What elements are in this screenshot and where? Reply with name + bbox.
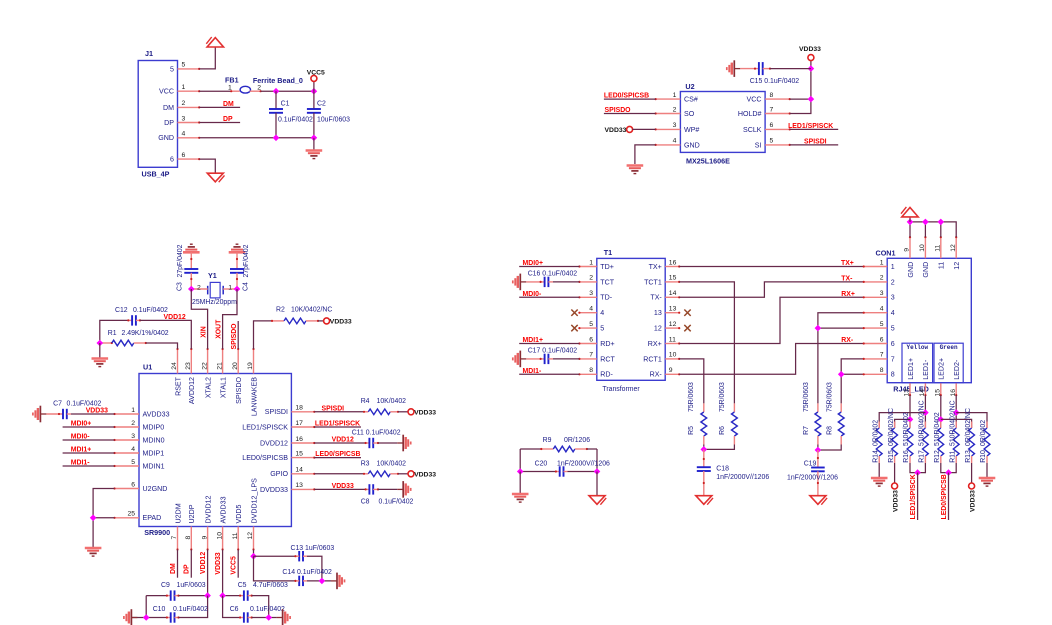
svg-text:7: 7 — [891, 355, 895, 363]
svg-text:8: 8 — [770, 92, 774, 99]
svg-text:8: 8 — [891, 371, 895, 379]
capacitor C11 0.1uF/0402 — [366, 442, 370, 444]
svg-text:1: 1 — [131, 407, 135, 414]
svg-text:12: 12 — [953, 262, 961, 270]
svg-text:C17 0.1uF/0402: C17 0.1uF/0402 — [528, 348, 578, 355]
ground (left of C7) — [33, 406, 47, 423]
svg-text:C12: C12 — [115, 307, 128, 314]
svg-text:18: 18 — [295, 405, 303, 412]
wire LED2- net (pin16) — [955, 395, 957, 428]
svg-text:0.1uF/0402: 0.1uF/0402 — [67, 401, 102, 408]
svg-text:VCC: VCC — [159, 88, 174, 96]
svg-text:DVDD33: DVDD33 — [260, 486, 288, 494]
svg-text:5: 5 — [589, 321, 593, 328]
svg-text:WP#: WP# — [684, 126, 699, 134]
svg-text:4: 4 — [673, 138, 677, 145]
svg-text:R3: R3 — [361, 460, 370, 467]
svg-text:R6: R6 — [719, 426, 726, 435]
svg-text:6: 6 — [891, 340, 895, 348]
svg-text:2.49K/1%/0402: 2.49K/1%/0402 — [122, 330, 169, 337]
svg-text:16: 16 — [669, 259, 677, 266]
svg-text:SPISDI: SPISDI — [322, 405, 345, 412]
svg-text:GND: GND — [907, 262, 915, 278]
svg-text:DM: DM — [223, 101, 234, 108]
ground (left of C17) — [513, 351, 527, 368]
svg-text:10K/0402/NC: 10K/0402/NC — [291, 306, 332, 313]
svg-text:VCC: VCC — [747, 96, 762, 104]
svg-text:VDD33: VDD33 — [605, 127, 627, 134]
resistor R5 75R/0603 — [703, 403, 705, 412]
svg-text:LED1/SPISCK: LED1/SPISCK — [910, 474, 917, 519]
svg-text:DVDD12_LPS: DVDD12_LPS — [250, 478, 258, 524]
capacitor C13 1uF/0603 — [254, 555, 296, 557]
svg-text:25: 25 — [127, 511, 135, 518]
wire DP net (J1 pin3) — [199, 122, 240, 124]
IC U1 SR9900 — [139, 374, 291, 527]
svg-text:C10: C10 — [153, 606, 166, 613]
svg-text:GND: GND — [922, 262, 930, 278]
svg-text:C3: C3 — [177, 282, 184, 291]
svg-text:7: 7 — [880, 352, 884, 359]
resistor R10 0R/0402 — [986, 422, 988, 429]
svg-text:510R/0402/NC: 510R/0402/NC — [919, 400, 926, 446]
svg-text:21: 21 — [216, 362, 223, 370]
svg-text:0R/0402/NC: 0R/0402/NC — [965, 408, 972, 446]
svg-text:Yellow: Yellow — [906, 344, 928, 351]
wire DVDD33 pin13 net — [314, 488, 365, 490]
svg-text:LED1+: LED1+ — [907, 358, 915, 380]
svg-text:6: 6 — [770, 122, 774, 129]
svg-text:AVDD33: AVDD33 — [143, 410, 170, 418]
wire VDD12 to AVDD12 pin23 — [140, 320, 191, 349]
svg-text:TX+: TX+ — [841, 260, 854, 267]
chassis ground (above CON1) — [901, 207, 918, 217]
capacitor C17 0.1uF/0402 — [526, 358, 544, 360]
svg-text:6: 6 — [131, 481, 135, 488]
svg-text:R13: R13 — [965, 450, 972, 463]
svg-text:SR9900: SR9900 — [144, 528, 170, 537]
svg-text:LED0/SPICSB: LED0/SPICSB — [315, 451, 360, 458]
svg-text:MDI0+: MDI0+ — [523, 260, 544, 267]
chassis ground (below J1) — [207, 173, 224, 182]
wire LED1+ net (pin13) — [909, 395, 911, 428]
svg-text:RX-: RX- — [650, 371, 663, 379]
svg-text:20: 20 — [232, 362, 239, 370]
svg-text:C20: C20 — [535, 461, 548, 468]
wire J1 GND net — [199, 137, 314, 139]
wire MDI1- to T1 RD- — [519, 373, 579, 375]
wire LED2+ net (pin15) — [940, 395, 942, 428]
svg-text:23: 23 — [185, 362, 192, 370]
wire MDI1+ to T1 RD+ — [519, 343, 579, 345]
resistor R9 0R/1206 — [520, 448, 541, 450]
no-connect X T1 pin4 — [571, 310, 577, 316]
svg-text:MDIP0: MDIP0 — [143, 423, 165, 431]
svg-text:2: 2 — [589, 275, 593, 282]
svg-text:LED2+: LED2+ — [938, 358, 946, 380]
wire U2 SI net — [790, 144, 839, 146]
svg-text:R17: R17 — [919, 450, 926, 463]
svg-text:XTAL1: XTAL1 — [219, 377, 227, 398]
svg-text:RX-: RX- — [841, 337, 854, 344]
svg-text:C7: C7 — [53, 401, 62, 408]
svg-text:2: 2 — [891, 278, 895, 286]
svg-text:4: 4 — [182, 131, 186, 138]
svg-text:R1: R1 — [108, 330, 117, 337]
wire LED1- net (pin14) — [924, 395, 926, 428]
svg-text:AVDD33: AVDD33 — [219, 496, 227, 523]
svg-text:VDD33: VDD33 — [86, 408, 108, 415]
chassis ground (below C18) — [696, 496, 713, 505]
svg-text:11: 11 — [669, 336, 676, 343]
svg-text:5: 5 — [600, 325, 604, 333]
svg-text:C8: C8 — [361, 498, 370, 505]
svg-text:27pF/0402: 27pF/0402 — [243, 244, 250, 277]
svg-text:XTAL2: XTAL2 — [204, 377, 212, 398]
svg-text:TX+: TX+ — [649, 263, 662, 271]
svg-text:R11: R11 — [949, 451, 956, 463]
wire U2 SO net — [604, 113, 656, 115]
no-connect X T1 pin12 — [684, 325, 690, 331]
svg-text:10: 10 — [669, 352, 677, 359]
ground (left of C10) — [124, 609, 137, 625]
ground (below U2) — [627, 166, 644, 174]
svg-text:24: 24 — [171, 362, 178, 370]
svg-text:RX+: RX+ — [648, 340, 662, 348]
svg-text:C11 0.1uF/0402: C11 0.1uF/0402 — [352, 429, 401, 436]
svg-text:2: 2 — [197, 284, 201, 291]
svg-text:510R/0402: 510R/0402 — [934, 412, 941, 446]
svg-text:U2GND: U2GND — [143, 485, 168, 493]
svg-text:15: 15 — [295, 450, 303, 457]
svg-text:1: 1 — [589, 259, 593, 266]
chassis ground (below C20 right) — [596, 472, 598, 496]
svg-text:5: 5 — [170, 65, 174, 73]
wire U2 GND to ground — [635, 145, 656, 164]
svg-text:5: 5 — [891, 325, 895, 333]
power port VDD33 (above U2) — [808, 55, 814, 61]
resistor R4 10K/0402 — [364, 411, 368, 413]
capacitor C12 0.1uF/0402 — [100, 320, 129, 343]
svg-text:SPISDI: SPISDI — [265, 408, 288, 416]
svg-text:FB1: FB1 — [225, 75, 239, 84]
capacitor C20 1nF/2000V//1206 — [519, 449, 521, 472]
svg-text:TCT: TCT — [600, 278, 614, 286]
svg-text:U1: U1 — [143, 363, 152, 372]
wire R10 to ground — [986, 463, 988, 477]
capacitor C4 27pF/0402 — [236, 252, 238, 269]
svg-text:C18: C18 — [716, 465, 729, 472]
svg-text:12: 12 — [654, 325, 662, 333]
svg-text:0.1uF/0402: 0.1uF/0402 — [250, 606, 285, 613]
wire MDI0+ net — [63, 426, 115, 428]
wire AVDD33 pin1 net — [71, 413, 115, 415]
ground (right of C14) — [331, 573, 345, 590]
svg-text:13: 13 — [669, 306, 677, 313]
svg-text:SPISDO: SPISDO — [231, 323, 238, 350]
svg-text:MDI0+: MDI0+ — [71, 421, 92, 428]
svg-text:Y1: Y1 — [208, 271, 217, 280]
wire RX- net — [679, 344, 864, 375]
svg-text:MDIN0: MDIN0 — [143, 436, 165, 444]
svg-text:C2: C2 — [317, 100, 326, 107]
svg-text:R8: R8 — [827, 426, 834, 435]
svg-text:VDD12: VDD12 — [200, 552, 207, 574]
wire R12/R11 bottoms to LED0/SPICSB — [941, 463, 956, 473]
svg-text:1: 1 — [228, 284, 232, 291]
svg-text:HOLD#: HOLD# — [738, 110, 762, 118]
connector CON1 RJ45_LED — [887, 258, 971, 382]
wire U2 VCC rail to VDD33 — [790, 98, 811, 100]
ground (right of C8) — [397, 481, 411, 498]
resistor R8 75R/0603 — [840, 403, 842, 412]
svg-text:2: 2 — [131, 420, 135, 427]
svg-text:C4: C4 — [243, 282, 250, 291]
svg-text:CON1: CON1 — [876, 248, 896, 257]
svg-text:5: 5 — [880, 321, 884, 328]
svg-text:14: 14 — [295, 467, 303, 474]
svg-text:0R/0402: 0R/0402 — [980, 420, 987, 446]
svg-text:XIN: XIN — [200, 326, 207, 338]
svg-text:8: 8 — [880, 367, 884, 374]
svg-text:DP: DP — [223, 116, 233, 123]
svg-text:SI: SI — [755, 141, 762, 149]
wire CON1 pin7/pin8 junction (down to R8) — [841, 359, 864, 404]
resistor R15 0R/0402/NC — [894, 422, 896, 429]
svg-text:7: 7 — [171, 536, 178, 540]
svg-text:C9: C9 — [161, 582, 170, 589]
power port VDD33 (R3) — [408, 471, 414, 477]
capacitor C10 0.1uF/0402 — [145, 596, 147, 618]
flash U2 MX25L1606E — [680, 92, 765, 153]
svg-text:75R/0603: 75R/0603 — [688, 382, 695, 412]
capacitor C8 0.1uF/0402 — [366, 488, 370, 490]
svg-text:3: 3 — [891, 294, 895, 302]
svg-text:22: 22 — [201, 362, 208, 370]
capacitor C19 1nF/2000V/1206 — [817, 450, 819, 468]
svg-text:VCC5: VCC5 — [307, 70, 325, 77]
wire U2 CS# net — [604, 98, 656, 100]
svg-text:R16: R16 — [903, 450, 910, 463]
wire DVDD12 pin16 net — [314, 442, 365, 444]
power port VCC5 — [313, 81, 315, 91]
wire VCC5 net (pin11) — [237, 550, 239, 578]
LED sub-box Green — [934, 343, 963, 383]
svg-text:8: 8 — [589, 367, 593, 374]
LED sub-box Yellow — [902, 343, 933, 383]
svg-text:3: 3 — [673, 122, 677, 129]
svg-text:DVDD12: DVDD12 — [204, 495, 212, 523]
capacitor C9 1uF/0603 — [146, 595, 167, 597]
svg-text:RSET: RSET — [174, 376, 182, 396]
svg-text:2: 2 — [257, 84, 261, 91]
svg-text:VDD33: VDD33 — [414, 471, 436, 478]
svg-text:RD-: RD- — [600, 371, 613, 379]
wire SPISDI pin18 to R4 — [314, 411, 364, 413]
svg-text:VDD33: VDD33 — [414, 409, 436, 416]
svg-text:R7: R7 — [803, 426, 810, 435]
svg-text:1: 1 — [673, 92, 677, 99]
svg-text:1: 1 — [228, 84, 232, 91]
svg-text:3: 3 — [182, 115, 186, 122]
wire MDI0- to T1 TD- — [519, 296, 579, 298]
svg-text:VDD33: VDD33 — [332, 483, 354, 490]
svg-text:11: 11 — [232, 532, 239, 539]
svg-text:MDI1-: MDI1- — [523, 368, 542, 375]
wire DM net (J1 pin2) — [199, 106, 240, 108]
svg-text:9: 9 — [201, 536, 208, 540]
svg-text:C6: C6 — [230, 606, 239, 613]
svg-text:TD+: TD+ — [600, 263, 614, 271]
svg-text:14: 14 — [669, 290, 677, 297]
svg-text:9: 9 — [904, 248, 911, 252]
svg-text:U2: U2 — [685, 82, 694, 91]
connector J1 USB_4P — [138, 61, 177, 168]
wire VDD33 net (pin10) — [222, 550, 224, 596]
svg-text:RD+: RD+ — [600, 340, 614, 348]
svg-text:0R/1206: 0R/1206 — [564, 437, 590, 444]
svg-text:10K/0402: 10K/0402 — [377, 460, 407, 467]
svg-text:TX-: TX- — [841, 275, 853, 282]
capacitor C15 0.1uF/0402 — [740, 68, 759, 70]
svg-text:0R/0402/NC: 0R/0402/NC — [888, 408, 895, 446]
wire LED0/SPICSB pin15 net — [314, 457, 361, 459]
svg-text:13: 13 — [654, 309, 662, 317]
svg-text:R5: R5 — [688, 426, 695, 435]
svg-text:LED1/SPISCK: LED1/SPISCK — [242, 423, 288, 431]
svg-text:GPIO: GPIO — [270, 470, 288, 478]
svg-text:C14 0.1uF/0402: C14 0.1uF/0402 — [282, 569, 332, 576]
svg-text:0.1uF/0402: 0.1uF/0402 — [379, 498, 414, 505]
svg-text:USB_4P: USB_4P — [142, 170, 170, 179]
svg-text:MDI1-: MDI1- — [71, 460, 90, 467]
wire RCT1 net (down to R5) — [679, 359, 704, 404]
svg-text:RCT: RCT — [600, 355, 615, 363]
wire U2 SCLK net — [790, 128, 839, 130]
svg-text:LANWAKEB: LANWAKEB — [250, 377, 258, 416]
capacitor C3 27pF/0402 — [190, 252, 192, 269]
wire LED1+ branch to R15 — [895, 419, 910, 428]
svg-text:15: 15 — [669, 275, 677, 282]
resistor R17 510R/0402/NC — [924, 422, 926, 429]
svg-text:MX25L1606E: MX25L1606E — [686, 157, 730, 166]
svg-text:MDIN1: MDIN1 — [143, 462, 165, 470]
svg-text:U2DM: U2DM — [174, 503, 182, 523]
svg-text:TD-: TD- — [600, 294, 612, 302]
resistor R1 2.49K/1%/0402 — [100, 342, 112, 344]
wire LED2- branch to R10 — [956, 413, 987, 428]
ground (below R1) — [99, 343, 101, 358]
svg-text:LED0/SPICSB: LED0/SPICSB — [604, 93, 649, 100]
svg-text:GND: GND — [158, 134, 174, 142]
svg-text:1: 1 — [891, 263, 895, 271]
svg-text:7: 7 — [770, 106, 774, 113]
svg-text:Green: Green — [940, 344, 958, 351]
capacitor C18 1nF/2000V//1206 — [703, 449, 705, 467]
svg-text:1nF/2000V/1206: 1nF/2000V/1206 — [787, 475, 838, 482]
svg-text:C13 1uF/0603: C13 1uF/0603 — [291, 545, 335, 552]
svg-text:1: 1 — [182, 84, 186, 91]
svg-text:6: 6 — [182, 152, 186, 159]
svg-text:MDI1+: MDI1+ — [523, 337, 544, 344]
svg-text:0.1uF/0402: 0.1uF/0402 — [173, 606, 208, 613]
svg-text:SPISDI: SPISDI — [804, 138, 827, 145]
resistor R3 10K/0402 — [364, 473, 368, 475]
power port VDD33 (below R15) — [894, 463, 896, 483]
svg-text:12: 12 — [669, 321, 677, 328]
svg-text:27pF/0402: 27pF/0402 — [177, 244, 184, 277]
svg-text:LED0/SPICSB: LED0/SPICSB — [941, 474, 948, 519]
svg-text:SPISDO: SPISDO — [605, 107, 632, 114]
svg-text:3: 3 — [589, 290, 593, 297]
capacitor C2 10uF/0603 — [313, 91, 315, 109]
svg-text:VDD33: VDD33 — [969, 490, 976, 512]
power port VDD33 (R2) — [324, 318, 330, 324]
wire RX+ net — [679, 297, 864, 343]
svg-text:510R/0402: 510R/0402 — [903, 412, 910, 446]
svg-text:4: 4 — [891, 309, 895, 317]
svg-text:CS#: CS# — [684, 96, 698, 104]
svg-text:R12: R12 — [934, 450, 941, 463]
svg-text:11: 11 — [938, 262, 946, 269]
chassis ground (below C19) — [810, 496, 827, 505]
wire DM net (pin7) — [177, 550, 179, 578]
wire J1 pin6 to chassis — [199, 159, 215, 173]
svg-text:TX-: TX- — [650, 294, 662, 302]
capacitor C1 0.1uF/0402 — [275, 91, 277, 109]
svg-text:10: 10 — [216, 532, 223, 540]
resistor R6 75R/0603 — [733, 403, 735, 412]
svg-text:0R/0402: 0R/0402 — [872, 420, 879, 446]
power port VDD33 (below R13) — [971, 463, 973, 483]
chassis ground (top left) — [206, 37, 223, 47]
svg-text:12: 12 — [950, 244, 957, 252]
wire R7/R8 bottoms join — [817, 445, 819, 451]
wire J1 pin5 to chassis — [199, 47, 215, 69]
wire XOUT net (crystal to XTAL1) — [223, 289, 237, 349]
ground (below C20 left) — [519, 472, 521, 494]
svg-text:R15: R15 — [888, 450, 895, 463]
svg-text:75R/0603: 75R/0603 — [719, 382, 726, 412]
wire MDI0- net — [63, 439, 115, 441]
svg-text:VDD33: VDD33 — [799, 46, 821, 53]
svg-text:Ferrite Bead_0: Ferrite Bead_0 — [253, 76, 303, 85]
no-connect X T1 pin13 — [684, 310, 690, 316]
svg-text:4: 4 — [880, 306, 884, 313]
svg-text:LED1/SPISCK: LED1/SPISCK — [788, 123, 833, 130]
svg-text:XOUT: XOUT — [215, 319, 222, 339]
wire CON1 shield rail to chassis — [910, 222, 956, 237]
svg-text:510R/0402/NC: 510R/0402/NC — [949, 400, 956, 446]
crystal Y1 25MHz — [210, 282, 220, 298]
resistor R14 0R/0402 — [878, 422, 880, 429]
svg-text:75R/0603: 75R/0603 — [827, 382, 834, 412]
svg-text:U2DP: U2DP — [188, 504, 196, 523]
resistor R2 10K/0402/NC — [272, 320, 284, 322]
svg-text:RCT1: RCT1 — [643, 355, 662, 363]
svg-text:MDI0-: MDI0- — [71, 434, 90, 441]
svg-text:VDD33: VDD33 — [892, 490, 899, 512]
svg-text:Transformer: Transformer — [602, 386, 640, 393]
ground (left of C16) — [513, 274, 527, 291]
ground (below C2) — [313, 138, 315, 150]
wire XIN net (crystal to XTAL2) — [191, 289, 207, 349]
svg-text:VDD33: VDD33 — [330, 318, 352, 325]
capacitor C14 0.1uF/0402 — [254, 556, 296, 581]
svg-text:1uF/0603: 1uF/0603 — [177, 582, 206, 589]
svg-text:1nF/2000V//1206: 1nF/2000V//1206 — [557, 461, 610, 468]
wire LED2+ branch to R13 — [941, 419, 972, 428]
